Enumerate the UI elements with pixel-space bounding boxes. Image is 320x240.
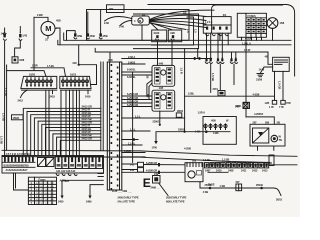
svg-text:6-25/8 GR: 6-25/8 GR <box>127 96 138 100</box>
central harness channel outer <box>100 62 102 150</box>
staircase wires to bottom connector <box>23 108 101 155</box>
svg-text:B1B2B3B4B5B6B7B8: B1B2B3B4B5B6B7B8 <box>4 163 30 167</box>
wire 131 <box>122 130 150 132</box>
switch cell 44/8 <box>168 30 181 42</box>
svg-text:57 87 70 90: 57 87 70 90 <box>36 186 54 188</box>
band line L4 <box>2 150 297 156</box>
svg-text:5% LATE TYPE: 5% LATE TYPE <box>118 200 136 204</box>
svg-text:267: 267 <box>253 120 258 124</box>
svg-text:2412: 2412 <box>252 169 258 173</box>
wire ground curve below cluster A <box>21 90 28 97</box>
svg-text:2413: 2413 <box>262 169 268 173</box>
svg-text:2469: 2469 <box>86 200 92 204</box>
cluster B pins <box>62 78 89 86</box>
wire riser x132.6 <box>132 72 134 162</box>
node GM dot <box>78 64 80 66</box>
wire strip left L wire 2450 <box>62 180 103 196</box>
svg-text:6/26 LATE TYPE: 6/26 LATE TYPE <box>166 200 185 204</box>
connector row empty cells <box>38 158 55 167</box>
harness strip inner rails <box>109 62 111 190</box>
wire strip left L wire 2469 <box>90 185 103 196</box>
svg-text:2416: 2416 <box>85 95 91 99</box>
module feed wire <box>246 117 274 124</box>
svg-text:247: 247 <box>236 180 241 184</box>
node dot1 25048 <box>209 187 212 190</box>
svg-text:25049: 25049 <box>256 183 263 187</box>
wire fan top line <box>148 5 295 77</box>
wire nested drop <box>197 49 199 59</box>
wire light switch drop <box>272 31 274 41</box>
instrument cluster connector B 16/13 <box>60 72 91 90</box>
svg-text:1/35: 1/35 <box>265 101 270 105</box>
wire fan lines <box>150 10 215 19</box>
node 23003 <box>184 131 186 133</box>
svg-text:4/5B: 4/5B <box>90 34 95 38</box>
light switch circle <box>267 18 285 31</box>
svg-text:4-25/8 R: 4-25/8 R <box>254 112 263 116</box>
ground 1700 <box>152 141 158 150</box>
svg-text:2450: 2450 <box>58 200 64 204</box>
connector 4/5C on bus <box>99 10 107 39</box>
svg-text:2408: 2408 <box>228 169 234 173</box>
wires into relay blocks verticals <box>157 42 159 66</box>
wire far-left vertical 2 <box>6 65 8 150</box>
svg-text:4/5B: 4/5B <box>102 34 107 38</box>
svg-text:2415: 2415 <box>50 95 56 99</box>
svg-text:1.5BL: 1.5BL <box>188 92 195 96</box>
switch cell 41/42 <box>152 30 167 42</box>
svg-text:6-25/8 GR: 6-25/8 GR <box>127 92 138 96</box>
svg-text:2/28 EARLY TYPE: 2/28 EARLY TYPE <box>166 196 187 200</box>
svg-text:2411: 2411 <box>241 169 247 173</box>
wire trunk x184.6 <box>184 49 186 132</box>
band line L5 <box>2 157 270 163</box>
svg-text:84 18 87 11: 84 18 87 11 <box>36 190 54 192</box>
note pointer <box>159 184 168 196</box>
cluster pin drops to connector row <box>45 90 47 155</box>
svg-text:2-66: 2-66 <box>119 25 124 29</box>
svg-text:23003: 23003 <box>178 127 185 131</box>
bus line B <box>58 40 291 45</box>
wire 2-66 B <box>122 63 145 65</box>
svg-text:26/15: 26/15 <box>276 198 283 202</box>
central harness strip <box>107 58 122 190</box>
comp 2670 <box>236 102 250 108</box>
svg-text:1.5 L: 1.5 L <box>130 127 136 131</box>
dashboard inner outline <box>133 14 199 49</box>
wire arc to flasher <box>105 17 132 22</box>
wire drop mid lamp <box>219 64 221 90</box>
relay 2/23 <box>265 55 290 72</box>
wire y139.5 <box>122 139 138 141</box>
bus line C <box>95 48 268 52</box>
connector row pins dense <box>4 156 34 162</box>
connector block 2/4 <box>203 13 231 36</box>
seat belt warning unit box <box>250 120 285 146</box>
svg-text:1.5R A: 1.5R A <box>198 111 206 115</box>
bus line A <box>64 33 291 40</box>
svg-text:1700: 1700 <box>152 146 158 150</box>
wire 145 <box>122 144 142 146</box>
connector tick 1438 on wire <box>205 130 207 133</box>
svg-text:2497: 2497 <box>205 169 211 173</box>
connector 1/4B <box>1 28 7 40</box>
svg-text:1.5 SB: 1.5 SB <box>203 158 211 162</box>
wires right of strip top <box>122 58 212 60</box>
svg-text:1/4B: 1/4B <box>1 32 6 36</box>
lamp 34/5 <box>235 103 248 108</box>
svg-text:7 35: 7 35 <box>279 105 284 109</box>
ground stub 2416 <box>87 90 89 93</box>
wire strip left stubs <box>98 173 103 175</box>
svg-text:2412: 2412 <box>18 99 24 103</box>
wire horizontal y70 to cluster <box>7 71 46 77</box>
svg-text:4 SB: 4 SB <box>203 190 209 194</box>
connector pair 6/40a <box>205 58 212 64</box>
svg-text:70 43 80 39: 70 43 80 39 <box>36 193 54 195</box>
connector 6/28 <box>12 57 25 63</box>
band end connector <box>269 155 274 166</box>
connector ticks on W1 <box>158 163 160 166</box>
svg-text:A11 A12 A13 A14: A11 A12 A13 A14 <box>56 169 76 173</box>
wire relay out left pin <box>274 71 276 100</box>
svg-text:6-25/8 GR: 6-25/8 GR <box>127 103 138 107</box>
comp 2451 <box>218 91 225 96</box>
wire junction to module <box>185 131 230 133</box>
svg-text:6-56 BL: 6-56 BL <box>127 68 136 72</box>
wire labels stack left of strip <box>82 104 93 140</box>
instrument cluster connector A 16/50 <box>21 72 57 90</box>
svg-text:41/42: 41/42 <box>153 31 160 35</box>
svg-text:2450 EARLY TYPE: 2450 EARLY TYPE <box>118 195 139 199</box>
wire junction left branch <box>156 132 185 141</box>
cluster B pin wedges <box>62 85 88 88</box>
ground 31/58 <box>256 74 264 82</box>
svg-text:H 26 ___ 5/99 ___: H 26 ___ 5/99 ___ <box>112 189 132 193</box>
strip feed from bus <box>109 52 111 62</box>
wire drop left lamp <box>210 64 212 92</box>
svg-text:16/50: 16/50 <box>29 72 36 76</box>
wire W3 <box>122 171 185 173</box>
svg-text:1438: 1438 <box>213 131 219 135</box>
wire motor top to left <box>34 17 48 21</box>
connector 4/5B on bus <box>87 12 95 39</box>
svg-text:4/8A: 4/8A <box>109 7 114 11</box>
motor M 4/29 <box>41 19 61 42</box>
svg-text:31/58: 31/58 <box>256 77 263 81</box>
wire motor right to bus <box>57 28 61 45</box>
svg-text:6-56 BL: 6-56 BL <box>127 75 136 79</box>
wire top-left corner drop <box>19 27 21 33</box>
node 23001 <box>159 124 161 126</box>
comp 247 pair <box>236 180 242 191</box>
svg-text:7/35: 7/35 <box>286 101 291 105</box>
wire drops block to lamp pairs <box>206 33 208 58</box>
svg-text:6-25/8 GR: 6-25/8 GR <box>146 161 157 165</box>
fuse box 1/6 <box>237 13 266 37</box>
svg-text:39 91 29 76: 39 91 29 76 <box>36 203 54 205</box>
wires strip to ignition block <box>122 95 152 97</box>
svg-text:4/45: 4/45 <box>159 86 164 90</box>
dashboard outer box <box>87 10 190 41</box>
inner outline second <box>151 17 194 45</box>
svg-text:1.5BL A: 1.5BL A <box>242 41 251 45</box>
svg-text:2 BR: 2 BR <box>32 64 38 68</box>
wire relay ground lead <box>260 67 272 74</box>
wire block1 diagonals <box>147 80 152 96</box>
relay block 4/45 lower <box>152 86 175 111</box>
wire drops from connector block <box>219 33 221 40</box>
comp 243 <box>130 168 144 173</box>
svg-text:1.5 W: 1.5 W <box>244 48 251 52</box>
wire relay out right <box>282 71 284 100</box>
svg-text:4/45: 4/45 <box>159 61 164 65</box>
wire connector 1/43 to 6/28 <box>15 41 21 57</box>
svg-text:GM: GM <box>73 61 77 65</box>
svg-text:44/8: 44/8 <box>170 31 175 35</box>
svg-text:2-66: 2-66 <box>104 21 109 25</box>
svg-text:70 60 91 29: 70 60 91 29 <box>36 200 54 202</box>
wire bottom right run <box>200 182 281 196</box>
svg-text:2498 __: 2498 __ <box>151 186 160 190</box>
svg-text:4/29: 4/29 <box>56 19 61 23</box>
svg-text:15181: 15181 <box>13 116 20 120</box>
teeth row bottom right <box>205 163 269 168</box>
svg-text:4/5B: 4/5B <box>77 34 82 38</box>
svg-text:2-66 A: 2-66 A <box>128 55 135 59</box>
svg-text:M: M <box>139 19 141 23</box>
lamp failure unit box <box>203 117 236 145</box>
wire branch to cluster 2 <box>31 68 66 77</box>
svg-text:28/31: 28/31 <box>177 109 184 113</box>
wire buzzer drops to band <box>257 146 259 150</box>
svg-text:4-25/8: 4-25/8 <box>184 146 191 150</box>
svg-text:268: 268 <box>265 120 270 124</box>
flasher relay 4/5B <box>132 16 150 25</box>
svg-text:2-66 B: 2-66 B <box>128 60 135 64</box>
svg-text:1/43: 1/43 <box>22 34 27 38</box>
svg-text:15/8: 15/8 <box>280 21 285 25</box>
svg-text:1.5 SB: 1.5 SB <box>222 158 230 162</box>
wire trunk branch right y96 <box>185 95 275 97</box>
wire drop third <box>233 64 235 84</box>
wires from 269 to right <box>208 164 297 166</box>
washer pump box 269 <box>185 159 203 182</box>
svg-text:269: 269 <box>192 159 197 163</box>
svg-text:2410: 2410 <box>216 169 222 173</box>
svg-text:6-25/8 GR: 6-25/8 GR <box>127 99 138 103</box>
svg-text:A1A2A3A4A5A6A7: A1A2A3A4A5A6A7 <box>6 168 28 172</box>
wire row to table <box>14 173 29 190</box>
svg-text:25048: 25048 <box>205 183 212 187</box>
svg-text:M: M <box>45 24 51 33</box>
connector 1/43 <box>19 32 28 40</box>
wires strip right to lamps <box>122 152 145 154</box>
wire 2670 drop <box>245 37 247 102</box>
svg-text:1 35: 1 35 <box>269 105 274 109</box>
svg-text:TN: TN <box>279 138 282 142</box>
svg-text:1 SB: 1 SB <box>220 184 226 188</box>
svg-text:40 85 79 26: 40 85 79 26 <box>36 183 54 185</box>
cluster A pins <box>26 78 53 86</box>
wire fan to cells <box>150 22 159 30</box>
svg-text:34 70 79 80: 34 70 79 80 <box>36 196 54 198</box>
small box above dashboard <box>107 5 125 13</box>
svg-text:16/13: 16/13 <box>70 72 77 76</box>
svg-text:1 2 3 4: 1 2 3 4 <box>205 20 213 24</box>
ground stub 2415 <box>52 90 54 93</box>
wire fuse box drops <box>241 37 243 40</box>
wire relay feed <box>268 52 273 64</box>
svg-text:24/15 GR: 24/15 GR <box>82 136 93 140</box>
svg-text:4/56: 4/56 <box>108 58 113 62</box>
connector row bottom hooks <box>56 174 59 176</box>
comp 1437 <box>176 113 182 117</box>
connector row right pins <box>55 156 102 168</box>
wire cluster B feed <box>79 45 97 85</box>
connector pair 6/40b <box>217 58 224 64</box>
wire W1 <box>122 163 138 165</box>
comp 242 <box>130 162 144 167</box>
svg-text:2 BR: 2 BR <box>37 13 43 17</box>
svg-text:6/28: 6/28 <box>19 58 24 62</box>
svg-text:Fuses: Fuses <box>39 177 47 181</box>
svg-text:6-25/8 GR: 6-25/8 GR <box>146 168 157 172</box>
node dot2 25049 <box>260 187 263 190</box>
wire module drop <box>141 25 143 40</box>
relay block 4/45 upper <box>152 61 175 86</box>
svg-text:4/56: 4/56 <box>211 119 216 123</box>
connector pair 6/40c <box>230 58 237 64</box>
svg-text:6/25: 6/25 <box>65 179 70 183</box>
svg-text:6-25/8: 6-25/8 <box>124 149 131 153</box>
svg-text:243: 243 <box>130 168 135 172</box>
svg-text:249: 249 <box>154 172 159 176</box>
wire 1.5 L <box>122 117 185 119</box>
connector 4/5A on bus <box>67 31 83 41</box>
svg-text:242: 242 <box>130 163 135 167</box>
harness strip pin marks <box>111 64 119 190</box>
wire far-left vertical <box>4 42 6 156</box>
bottom connector row box <box>2 156 104 174</box>
connector ticks on 2-66A wire <box>194 57 196 60</box>
svg-text:1.5 BL: 1.5 BL <box>128 141 136 145</box>
cluster A pin wedges <box>26 85 52 88</box>
fuse table <box>28 177 56 205</box>
fuse 1/35 <box>265 100 277 108</box>
svg-text:1.5 L: 1.5 L <box>135 114 141 118</box>
fuse 7/35 <box>279 100 291 108</box>
svg-text:23001: 23001 <box>153 120 160 124</box>
wire left drop x34 <box>33 17 35 70</box>
pin row 4/56 <box>204 119 227 136</box>
wire W2 <box>122 169 138 171</box>
relay 249 <box>153 172 161 183</box>
svg-text:2670: 2670 <box>236 104 242 108</box>
label box 15181 <box>12 115 24 120</box>
headlamp unit container rounded <box>212 5 283 33</box>
